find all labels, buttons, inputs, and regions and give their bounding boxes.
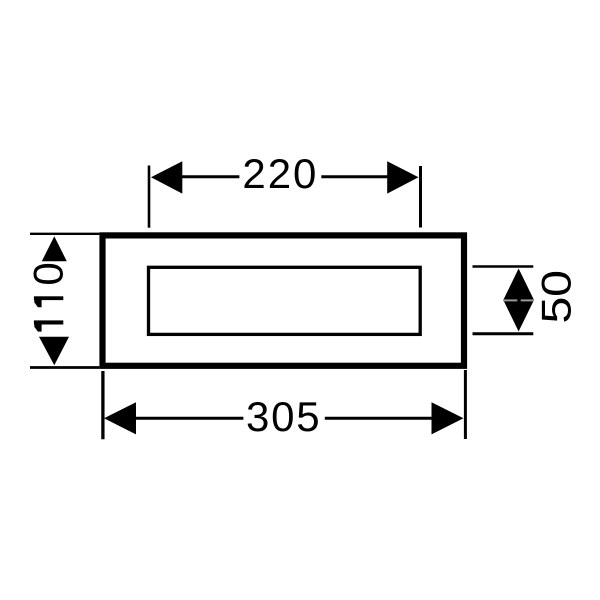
dimension 305: right arrowhead: [432, 402, 464, 434]
dimension 50: gray waist line across diamond, left part: [503, 299, 517, 301]
dimension 220: left extension line: [148, 166, 151, 228]
dimension 50: diamond double arrowhead: [503, 269, 534, 332]
dimension 305: dimension line left segment: [134, 417, 243, 420]
dimension 110: top extension line: [30, 233, 99, 235]
svg-text:0: 0: [25, 262, 72, 285]
svg-text:50: 50: [532, 270, 579, 323]
dimension 110: digit 1 (bottom) stem: [34, 320, 63, 324]
dimension 305: left arrowhead: [104, 402, 136, 434]
outer rectangle (305 x 110 block outline): [103, 235, 465, 365]
dimension 110: digit 1 (bottom) flag: [34, 325, 41, 332]
svg-text:220: 220: [242, 150, 316, 197]
svg-text:305: 305: [246, 393, 320, 440]
dimension 220: right extension line: [419, 166, 422, 228]
dimension 305: right extension line: [464, 370, 467, 439]
dimension 305: dimension line right segment: [325, 417, 434, 420]
dimension 220: dimension line right segment: [321, 175, 389, 178]
dimension 110: digit 1 (middle) flag: [34, 300, 41, 307]
dimension 220: left arrowhead: [151, 161, 182, 193]
dimension 110: up arrowhead: [42, 236, 67, 261]
dimension 50: gray waist line across diamond, right part: [521, 299, 535, 301]
dimension 50: top extension line: [473, 265, 534, 268]
dimension 110: digit 1 (middle) stem: [34, 296, 63, 300]
dimension 110: bottom extension line: [30, 366, 99, 369]
dimension 50: bottom extension line: [473, 332, 534, 335]
inner rectangle (220 x 50 opening): [149, 267, 421, 334]
dimension 220: dimension line left segment: [180, 175, 239, 178]
dimension 305: left extension line: [101, 371, 104, 439]
dimension 110: down arrowhead: [39, 337, 69, 366]
dimension 220: right arrowhead: [387, 161, 418, 193]
